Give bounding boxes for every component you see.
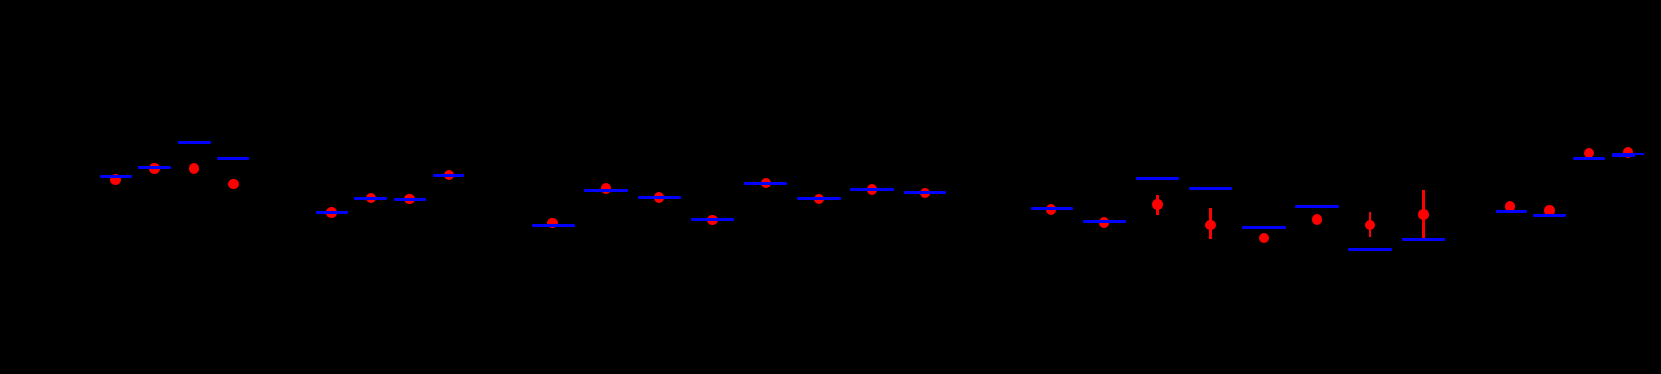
- data point 9 (experiment): [547, 218, 558, 229]
- level bar 2 (theory): [138, 166, 171, 169]
- error bar for point 20: [1209, 208, 1212, 239]
- data point 6 (experiment): [366, 193, 377, 204]
- level bar 15 (theory): [850, 188, 894, 191]
- level bar 21 (theory): [1242, 226, 1286, 229]
- data point 20 (experiment): [1205, 220, 1216, 231]
- level bar 22 (theory): [1295, 205, 1339, 208]
- level bar 3 (theory): [178, 141, 211, 144]
- level bar 9 (theory): [532, 224, 575, 227]
- level bar 12 (theory): [691, 218, 733, 221]
- data point 27 (experiment): [1584, 148, 1595, 159]
- data point 16 (experiment): [920, 188, 931, 199]
- level bar 6 (theory): [354, 197, 387, 200]
- data point 8 (experiment): [444, 170, 455, 181]
- data point 12 (experiment): [707, 215, 718, 226]
- data point 1 (experiment): [110, 174, 121, 185]
- data point 28 (experiment): [1623, 147, 1634, 158]
- level bar 28b (theory): [1626, 153, 1643, 155]
- data point 25 (experiment): [1505, 201, 1516, 212]
- data point 5 (experiment): [326, 207, 337, 218]
- data point 23 (experiment): [1365, 220, 1376, 231]
- level bar 23 (theory): [1348, 248, 1392, 251]
- level bar 17 (theory): [1031, 207, 1074, 210]
- error bar for point 24: [1422, 190, 1425, 238]
- data point 3 (experiment): [189, 163, 200, 174]
- data point 13 (experiment): [761, 178, 772, 189]
- level bar 16 (theory): [904, 191, 946, 194]
- level bar 24 (theory): [1402, 238, 1445, 241]
- data point 14 (experiment): [814, 194, 825, 205]
- level bar 14 (theory): [797, 197, 841, 200]
- data point 11 (experiment): [654, 192, 665, 203]
- data point 17 (experiment): [1046, 204, 1057, 215]
- data point 2 (experiment): [149, 163, 160, 174]
- level bar 26 (theory): [1533, 214, 1566, 217]
- level bar 5 (theory): [316, 211, 348, 214]
- data point 24 (experiment): [1418, 209, 1429, 220]
- level bar 8 (theory): [433, 174, 464, 177]
- data point 18 (experiment): [1099, 217, 1110, 228]
- level bar 11 (theory): [638, 196, 681, 199]
- data point 21 (experiment): [1259, 233, 1270, 244]
- data point 22 (experiment): [1312, 214, 1323, 225]
- level bar 19 (theory): [1136, 177, 1179, 180]
- data point 7 (experiment): [404, 194, 415, 205]
- level bar 28a (theory): [1612, 153, 1635, 157]
- data point 26 (experiment): [1544, 205, 1555, 216]
- data point 15 (experiment): [867, 184, 878, 195]
- data point 4 (experiment): [228, 179, 239, 190]
- level bar 1 (theory): [100, 175, 132, 178]
- level bar 7 (theory): [394, 198, 426, 201]
- data point 19 (experiment): [1152, 199, 1163, 210]
- level bar 10 (theory): [584, 189, 628, 192]
- error bar for point 19: [1156, 195, 1159, 214]
- data point 10 (experiment): [601, 183, 612, 194]
- level bar 20 (theory): [1189, 187, 1232, 190]
- level bar 4 (theory): [217, 157, 249, 160]
- level bar 13 (theory): [744, 182, 787, 185]
- level bar 27 (theory): [1573, 157, 1605, 160]
- level bar 25 (theory): [1496, 210, 1527, 213]
- level bar 18 (theory): [1083, 220, 1126, 223]
- error bar for point 23: [1369, 212, 1372, 237]
